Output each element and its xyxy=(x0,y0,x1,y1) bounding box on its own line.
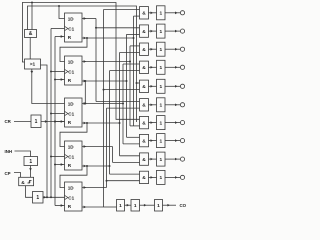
svg-text:1: 1 xyxy=(159,47,162,53)
AND gate A3 (decode output 3) xyxy=(140,61,149,73)
wire buffer B7 to output terminal Q7 xyxy=(165,139,180,142)
output terminal Q2 xyxy=(180,47,184,51)
carry buffer U10 xyxy=(155,200,163,212)
svg-text:1: 1 xyxy=(157,203,160,209)
flip-flop FF2 (D-type) xyxy=(65,56,83,85)
AND gate A7 (decode output 7) xyxy=(140,134,149,146)
svg-text:1: 1 xyxy=(159,84,162,90)
buffer B7 (output driver) xyxy=(157,134,166,148)
wire AND A5 to buffer B5 xyxy=(149,104,157,107)
AND gate A4 (decode output 4) xyxy=(140,80,149,92)
svg-text:1: 1 xyxy=(159,29,162,35)
svg-text:&: & xyxy=(142,65,146,71)
carry buffer U8 xyxy=(117,200,125,212)
wire buffer B1 to output terminal Q1 xyxy=(165,30,180,33)
svg-text:1D: 1D xyxy=(68,17,75,22)
buffer B1 (output driver) xyxy=(157,24,166,38)
svg-text:&: & xyxy=(142,103,146,109)
output terminal Q6 xyxy=(180,121,184,125)
wire buffer B8 to output terminal Q8 xyxy=(165,158,180,161)
svg-text:1: 1 xyxy=(159,103,162,109)
wire AND A8 to buffer B8 xyxy=(149,158,157,161)
inverter U4 (reset buffer) xyxy=(31,115,41,128)
wire clock bus to C1 inputs of FF1-FF5 xyxy=(50,29,65,199)
wire OR gate U3 output to FF3 D input xyxy=(32,69,65,104)
wire CR input to inverter U4 xyxy=(14,121,31,123)
svg-text:&: & xyxy=(21,180,25,186)
wire inverter U5 output to Schmitt AND gate xyxy=(29,166,32,178)
svg-text:C1: C1 xyxy=(68,195,74,200)
svg-text:C1: C1 xyxy=(68,111,74,116)
svg-text:C1: C1 xyxy=(68,26,74,31)
buffer B4 (output driver) xyxy=(157,79,166,93)
svg-text:CO: CO xyxy=(180,203,187,208)
wire buffer B4 to output terminal Q4 xyxy=(165,85,180,88)
wire clock driver output to clock bus and FF5 C1 xyxy=(43,196,65,199)
svg-text:&: & xyxy=(142,11,146,17)
svg-text:&: & xyxy=(142,138,146,144)
wire FF3 Qbar output to decode bus xyxy=(82,53,140,156)
svg-text:INH: INH xyxy=(5,149,13,154)
inverter U5 (clock inhibit) xyxy=(24,157,38,166)
svg-text:&: & xyxy=(142,84,146,90)
svg-text:1: 1 xyxy=(35,119,38,125)
wire AND A1 to buffer B1 xyxy=(149,30,157,33)
wire buffer B9 to output terminal Q9 xyxy=(165,176,180,179)
svg-text:CP: CP xyxy=(5,171,11,176)
svg-text:&: & xyxy=(142,29,146,35)
wire FF4 Qbar output to decode bus xyxy=(82,71,140,175)
output terminal Q7 xyxy=(180,139,184,143)
svg-text:1: 1 xyxy=(159,11,162,17)
buffer B0 (output driver) xyxy=(157,6,166,20)
carry buffer U9 xyxy=(131,200,140,212)
output terminal Q0 xyxy=(180,11,184,15)
wire buffer B5 to output terminal Q5 xyxy=(165,104,180,107)
AND gate A9 (decode output 9) xyxy=(140,171,149,183)
wire FF1 Qbar output to decode bus xyxy=(82,16,140,126)
wire AND A6 to buffer B6 xyxy=(149,121,157,124)
wire CP input to Schmitt AND gate xyxy=(14,173,21,178)
svg-text:1D: 1D xyxy=(68,145,75,150)
svg-text:1: 1 xyxy=(159,157,162,163)
wire tap net A to AND gate U2 second input xyxy=(31,3,33,30)
svg-text:1D: 1D xyxy=(68,186,75,191)
wire inverter U4 output to reset bus xyxy=(41,120,65,123)
buffer B6 (output driver) xyxy=(157,116,166,130)
output terminal Q5 xyxy=(180,103,184,107)
wire INH input to inverter U5 xyxy=(15,151,31,157)
wire carry U10 to CO terminal xyxy=(163,204,177,207)
buffer B5 (output driver) xyxy=(157,98,166,112)
wire buffer B3 to output terminal Q3 xyxy=(165,66,180,69)
wire buffer B2 to output terminal Q2 xyxy=(165,48,180,51)
svg-text:&: & xyxy=(142,120,146,126)
svg-text:1D: 1D xyxy=(68,60,75,65)
AND gate A5 (decode output 5) xyxy=(140,99,149,111)
OR gate U3 (feeds FF3 D input) xyxy=(25,59,41,69)
buffer B2 (output driver) xyxy=(157,42,166,56)
svg-text:1: 1 xyxy=(159,175,162,181)
flip-flop FF3 (D-type) xyxy=(65,98,83,127)
wire FF5 Qbar output to decode bus and carry chain xyxy=(82,10,140,209)
AND gate A6 (decode output 6) xyxy=(140,116,149,128)
flip-flop FF5 (D-type) xyxy=(65,182,83,211)
wire AND A9 to buffer B9 xyxy=(149,176,157,179)
wire AND A3 to buffer B3 xyxy=(149,66,157,69)
AND gate U2 (clock gating, top left) xyxy=(25,30,37,38)
wire FF2 Qbar branch down to FF3 row xyxy=(84,80,86,105)
wire FF3 Q output to decode bus xyxy=(82,64,140,144)
svg-text:1: 1 xyxy=(159,120,162,126)
svg-text:1: 1 xyxy=(36,195,39,201)
svg-text:&: & xyxy=(142,157,146,163)
wire carry U9 to U10 xyxy=(140,204,155,207)
svg-text:CR: CR xyxy=(5,119,12,124)
flip-flop FF4 (D-type) xyxy=(65,141,83,170)
wire OR gate right input from bus xyxy=(41,65,48,197)
wire FF1 Qbar to FF2 D input xyxy=(60,37,88,62)
wire carry U8 to U9 xyxy=(125,204,132,207)
wire FF4 Qbar to FF5 D input xyxy=(60,165,88,188)
output terminal Q1 xyxy=(180,29,184,33)
svg-text:C1: C1 xyxy=(68,154,74,159)
Schmitt AND gate U6 (clock input) xyxy=(19,177,34,186)
buffer B3 (output driver) xyxy=(157,60,166,74)
svg-text:1: 1 xyxy=(29,159,32,165)
svg-text:&: & xyxy=(142,47,146,53)
svg-text:>1: >1 xyxy=(30,62,36,68)
output terminal Q3 xyxy=(180,65,184,69)
wire feedback net A (top, to OR gate and decode bus) xyxy=(22,3,139,120)
wire FF5 Qbar to carry chain xyxy=(104,206,117,208)
buffer B9 (output driver) xyxy=(157,170,166,184)
wire AND A2 to buffer B2 xyxy=(149,48,157,51)
AND gate A0 (decode output 0) xyxy=(140,7,149,19)
output terminal Q8 xyxy=(180,157,184,161)
svg-text:C1: C1 xyxy=(68,69,74,74)
svg-text:1: 1 xyxy=(134,203,137,209)
flip-flop FF1 (D-type) xyxy=(65,13,83,42)
svg-text:1: 1 xyxy=(159,138,162,144)
wire AND A4 to buffer B4 xyxy=(149,85,157,88)
wire tap net B to FF1 D input xyxy=(59,6,65,19)
wire reset bus to R inputs of FF1-FF5 xyxy=(54,35,65,207)
svg-text:1D: 1D xyxy=(68,102,75,107)
wire FF1 Q output to decode bus xyxy=(82,17,140,101)
wire buffer B0 to output terminal Q0 xyxy=(165,12,180,15)
AND gate A1 (decode output 1) xyxy=(140,25,149,37)
wire buffer B6 to output terminal Q6 xyxy=(165,121,180,124)
wire AND A0 to buffer B0 xyxy=(149,12,157,15)
wire feedback net B (second top wire, to AND gate and decode bus) xyxy=(28,6,137,122)
svg-text:&: & xyxy=(142,175,146,181)
svg-text:&: & xyxy=(29,31,33,37)
AND gate A8 (decode output 8) xyxy=(140,153,149,165)
AND gate A2 (decode output 2) xyxy=(140,43,149,55)
output terminal Q9 xyxy=(180,175,184,179)
wire FF4 Q output to decode bus xyxy=(82,145,140,162)
wire FF3 Qbar to FF4 D input xyxy=(60,122,88,147)
clock driver U7 xyxy=(33,192,44,204)
output terminal Q4 xyxy=(180,84,184,88)
wire FF2 Qbar output to decode bus xyxy=(82,34,140,137)
wire FF5 Q output to decode bus xyxy=(82,108,140,189)
wire U2 output to OR gate U3 xyxy=(29,38,31,60)
buffer B8 (output driver) xyxy=(157,152,166,166)
wire AND A7 to buffer B7 xyxy=(149,139,157,142)
svg-text:1: 1 xyxy=(119,203,122,209)
wire FF2 Q output to decode bus xyxy=(82,46,140,126)
wire Schmitt AND output to clock driver U7 xyxy=(26,186,33,198)
svg-text:1: 1 xyxy=(159,65,162,71)
